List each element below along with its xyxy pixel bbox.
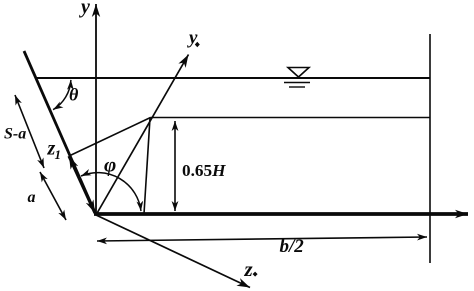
y axis xyxy=(95,4,97,215)
b/2 dimension arrow xyxy=(97,237,427,241)
inclined wall (thick) xyxy=(24,51,96,215)
x axis (thick base line with arrow) xyxy=(94,212,468,216)
water level symbol (nabla triangle) xyxy=(284,68,310,88)
a dimension arrow xyxy=(40,172,66,220)
svg-text:θ: θ xyxy=(69,85,79,105)
S-a dimension arrow xyxy=(15,95,44,168)
svg-text:y: y xyxy=(79,0,90,18)
theta angle arc (double arrow) xyxy=(53,80,71,110)
svg-text:0.65H: 0.65H xyxy=(182,161,226,180)
z* axis xyxy=(96,215,250,288)
y* axis label xyxy=(187,28,200,49)
line from wall point to junction xyxy=(69,118,151,157)
water surface line xyxy=(36,77,430,79)
z1 dimension arrow along wall xyxy=(69,156,95,213)
y* axis (through junction) xyxy=(96,55,189,216)
second horizontal line (0.65H level) xyxy=(151,117,431,119)
z1 label xyxy=(47,138,62,163)
right vertical line xyxy=(429,34,431,263)
0.65H dimension arrow (vertical double arrow) xyxy=(174,121,176,211)
short line from junction down to base xyxy=(144,118,150,214)
phi angle arc (double arrow) xyxy=(81,173,141,211)
svg-text:1: 1 xyxy=(55,147,62,162)
svg-text:z: z xyxy=(244,257,254,281)
svg-text:b/2: b/2 xyxy=(280,236,305,257)
svg-text:φ: φ xyxy=(104,153,116,177)
svg-text:a: a xyxy=(28,189,36,206)
svg-text:S-a: S-a xyxy=(4,126,26,143)
z* axis label xyxy=(244,257,258,281)
